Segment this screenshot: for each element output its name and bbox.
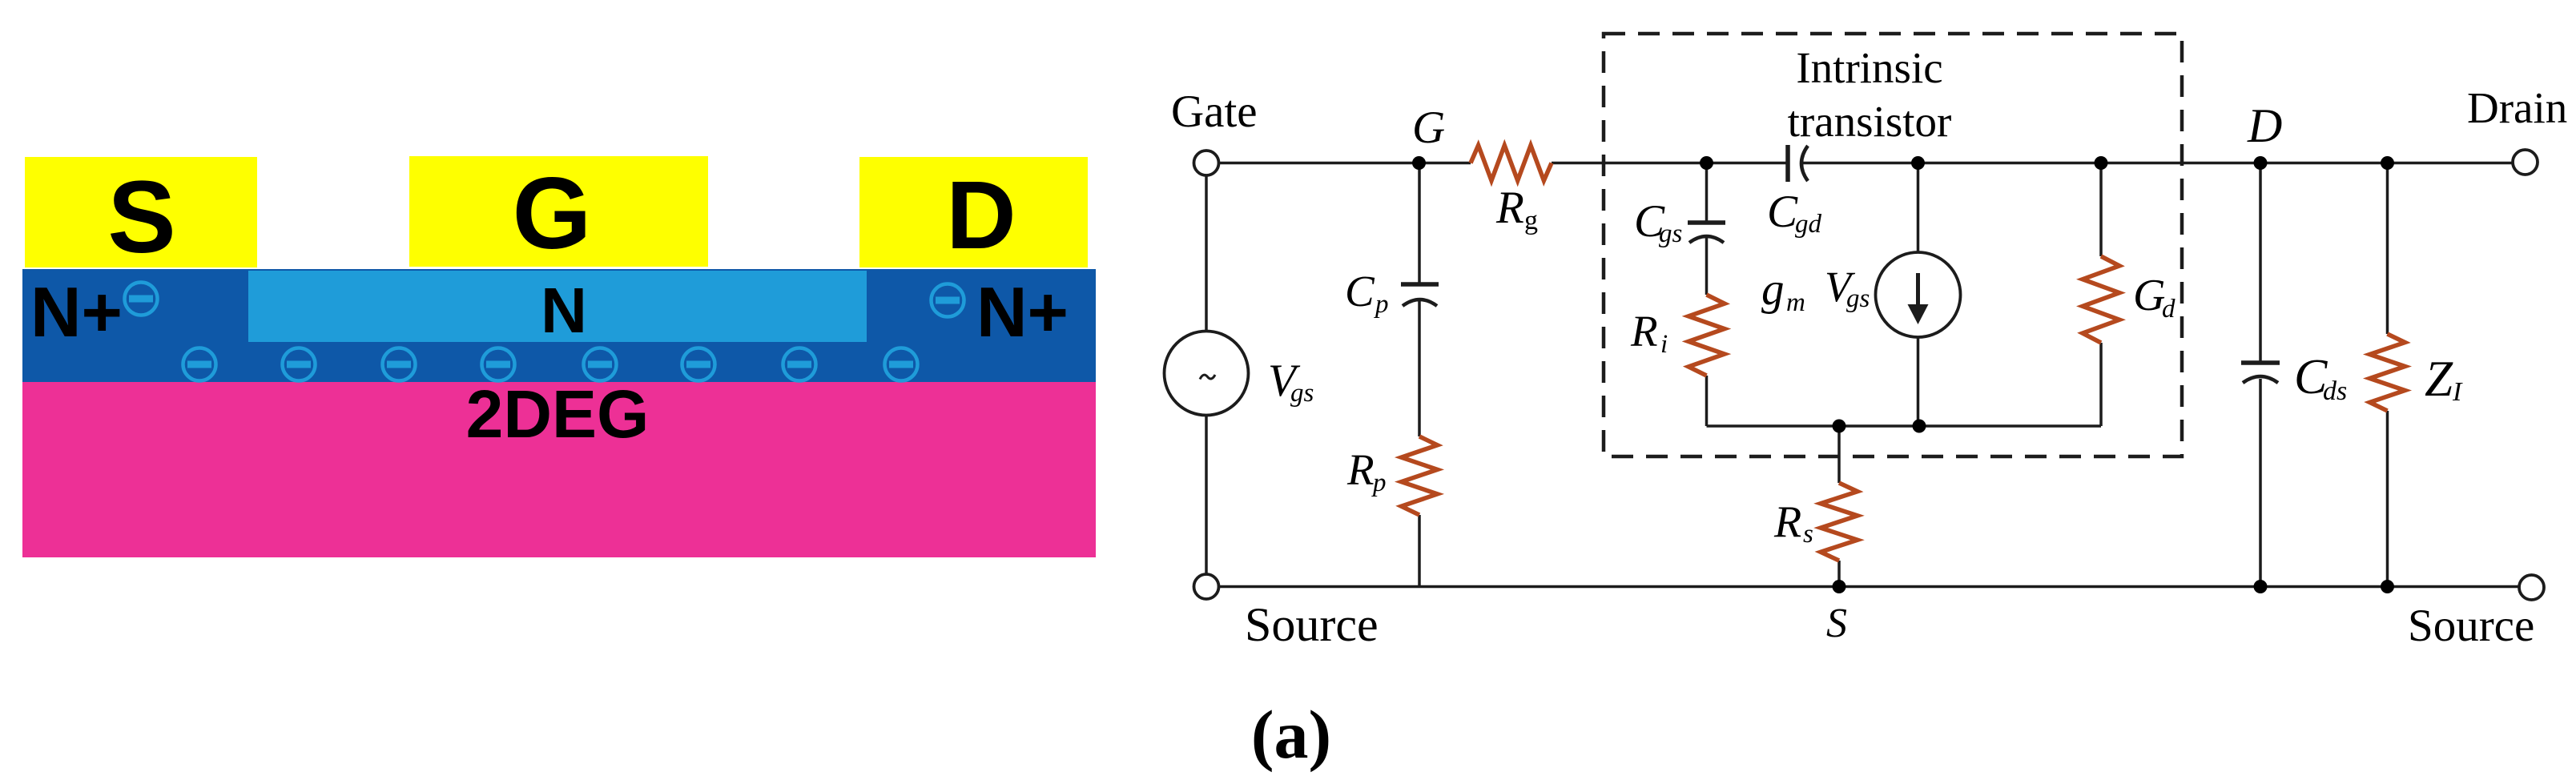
svg-text:gd: gd [1795, 210, 1822, 239]
wire Ri to intrinsic bottom rail [1705, 376, 1709, 426]
svg-text:R: R [1346, 445, 1375, 494]
label Gd [2133, 271, 2176, 324]
node S [1833, 580, 1846, 593]
electron 2DEG row 6 [682, 348, 715, 381]
controlled current source gm·Vgs [1876, 252, 1961, 337]
label Rs [1773, 497, 1813, 549]
wire node to Cgs [1705, 163, 1709, 222]
substrate (magenta) [22, 381, 1096, 557]
svg-text:Drain: Drain [2467, 83, 2567, 132]
wire intrinsic bottom rail [1707, 424, 2102, 428]
svg-text:g: g [1761, 264, 1785, 315]
svg-text:Z: Z [2425, 351, 2453, 407]
svg-text:s: s [1803, 520, 1813, 549]
node current source top [1911, 156, 1925, 170]
svg-text:g: g [1524, 206, 1538, 235]
resistor ZI [2370, 334, 2405, 411]
resistor Ri [1688, 295, 1725, 376]
svg-text:i: i [1660, 330, 1668, 359]
svg-text:p: p [1374, 290, 1389, 319]
svg-text:D: D [2247, 99, 2282, 152]
electron 2DEG row 4 [482, 348, 515, 381]
node G [1412, 156, 1426, 170]
label Cp [1345, 267, 1389, 319]
svg-text:Source: Source [1245, 598, 1379, 651]
N+ layer band (dark blue) [22, 269, 1096, 382]
wire intrinsic source node down to Rs [1837, 426, 1841, 483]
svg-text:G: G [513, 156, 592, 270]
terminal Gate [1194, 151, 1219, 175]
voltage source Vgs [1165, 332, 1249, 416]
label Cgs [1634, 196, 1682, 248]
svg-text:Intrinsic: Intrinsic [1796, 43, 1942, 92]
electron 2DEG row 8 [885, 348, 918, 381]
wire top rail: gate terminal to Rg [1219, 162, 1471, 165]
node ZI bottom [2381, 580, 2394, 593]
wire Gd to intrinsic bottom rail [2099, 343, 2103, 426]
wire bottom rail source-to-source [1219, 585, 2519, 589]
wire Rp to bottom rail [1418, 515, 1421, 587]
svg-text:N: N [541, 275, 587, 346]
drain contact D (yellow) [859, 157, 1088, 267]
wire drain rail down to ZI [2386, 163, 2389, 335]
svg-text:ds: ds [2323, 376, 2347, 406]
wire Cds to bottom rail [2259, 379, 2262, 587]
svg-text:R: R [1495, 183, 1524, 233]
terminal Source right [2519, 575, 2544, 600]
node ZI top [2381, 156, 2394, 170]
electron 2DEG row 5 [584, 348, 617, 381]
N region (light blue) [248, 271, 867, 342]
wire node G down to Cp [1418, 163, 1421, 283]
label Cds [2294, 350, 2347, 406]
resistor Rg [1471, 146, 1552, 181]
dashed box: intrinsic transistor boundary [1604, 34, 2182, 456]
svg-text:gs: gs [1846, 284, 1870, 313]
svg-text:gs: gs [1290, 379, 1314, 408]
wire Cgs to Ri [1705, 235, 1709, 295]
terminal Drain [2513, 150, 2538, 175]
svg-text:D: D [946, 160, 1016, 269]
wire current source to intrinsic bottom rail [1917, 337, 1920, 426]
wire Rs to bottom rail node S [1837, 561, 1841, 587]
resistor Rp [1402, 436, 1438, 515]
electron 2DEG row 3 [383, 348, 416, 381]
capacitor Cds [2241, 363, 2280, 383]
node gate-side intrinsic [1700, 156, 1713, 170]
resistor Rs [1821, 483, 1858, 561]
wire gate terminal down to Vgs source [1205, 176, 1208, 332]
svg-text:Source: Source [2408, 601, 2534, 651]
node intrinsic source junction [1833, 420, 1846, 433]
wire node D down to Cds [2259, 163, 2262, 362]
capacitor Cgd (series) [1788, 145, 1808, 182]
svg-text:C: C [1345, 267, 1375, 316]
capacitor Cgs [1688, 223, 1725, 243]
svg-text:N+: N+ [30, 272, 123, 352]
svg-text:gs: gs [1659, 219, 1682, 248]
svg-text:(a): (a) [1251, 696, 1331, 773]
wire top rail: Rg to Cgd left plate [1552, 162, 1788, 165]
svg-text:S: S [1826, 601, 1847, 646]
terminal Source left [1194, 574, 1219, 599]
label Ri [1630, 307, 1668, 359]
svg-text:S: S [107, 160, 175, 275]
node Gd top [2095, 156, 2108, 170]
resistor Gd [2083, 256, 2119, 343]
electron 2DEG row 2 [283, 348, 316, 381]
svg-text:transistor: transistor [1788, 97, 1952, 146]
electron near left N+ [125, 283, 158, 316]
node current source bottom [1913, 420, 1926, 433]
label Rp [1346, 445, 1387, 497]
wire top rail: Cgd to drain terminal [1802, 162, 2513, 165]
source contact S (yellow) [25, 157, 257, 267]
svg-text:R: R [1630, 307, 1658, 356]
label Cgd [1767, 187, 1822, 239]
wire top rail to Gd [2099, 163, 2103, 257]
label gm [1761, 264, 1805, 317]
svg-text:G: G [2133, 271, 2165, 320]
svg-text:d: d [2162, 295, 2176, 324]
wire Vgs source down to source terminal [1205, 416, 1208, 575]
wire Cp to Rp [1418, 301, 1421, 436]
label Intrinsic transistor [1788, 43, 1952, 146]
label Rg [1495, 183, 1538, 235]
gate contact G (yellow) [409, 156, 708, 267]
svg-text:2DEG: 2DEG [466, 376, 650, 452]
label Vgs source [1268, 356, 1314, 408]
svg-text:C: C [1767, 187, 1798, 237]
svg-text:Gate: Gate [1171, 86, 1258, 137]
node Cds bottom [2254, 580, 2268, 593]
capacitor Cp [1401, 284, 1439, 306]
label ZI [2425, 351, 2463, 407]
node D [2254, 156, 2268, 170]
wire ZI to bottom rail [2386, 411, 2389, 587]
electron 2DEG row 7 [783, 348, 816, 381]
electron near right N+ [932, 284, 964, 317]
svg-text:N+: N+ [976, 272, 1069, 352]
svg-text:m: m [1786, 288, 1805, 317]
label Vgs control [1825, 263, 1870, 313]
wire top rail to current source [1917, 163, 1920, 253]
svg-text:G: G [1412, 103, 1445, 153]
svg-text:R: R [1773, 497, 1801, 547]
svg-text:I: I [2452, 377, 2463, 407]
electron 2DEG row 1 [183, 348, 216, 381]
svg-text:p: p [1371, 468, 1387, 497]
